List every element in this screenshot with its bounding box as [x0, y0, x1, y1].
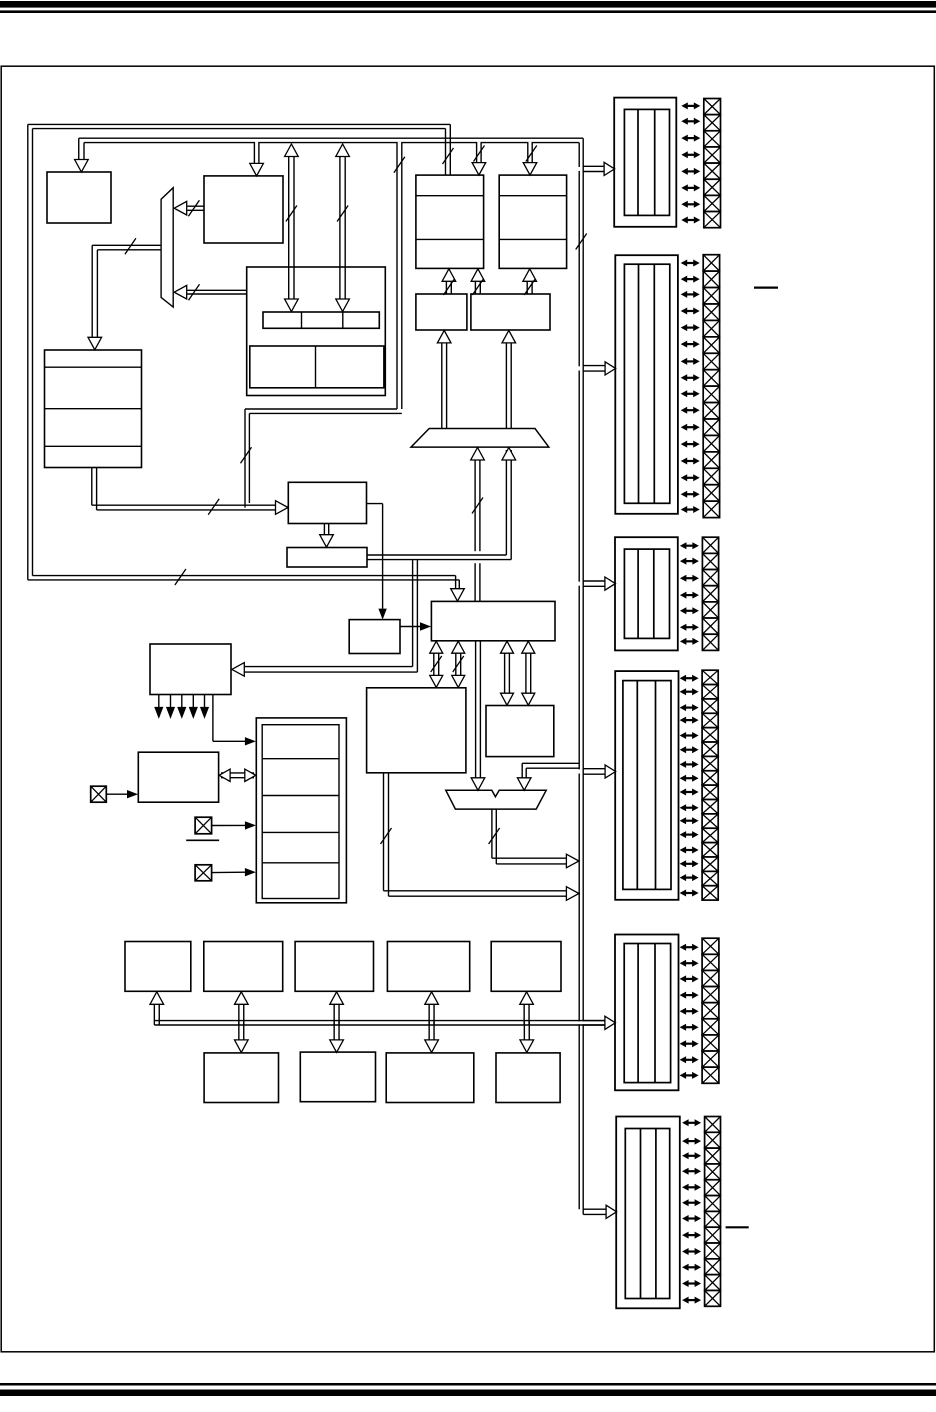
arrowhead: ALU-W up — [501, 641, 514, 653]
wire+arrow: bus to register row right — [336, 144, 350, 312]
tick: mux to stack horizontal — [125, 238, 136, 254]
arrowhead: latch into pointer high — [442, 269, 456, 282]
wire: VDD pin to timing — [212, 871, 246, 873]
port C pin arrows — [684, 545, 695, 547]
arrowhead: bus into instruction register — [250, 163, 264, 176]
arrowhead: status link into data mux — [502, 448, 516, 461]
arrowhead: into decode block — [232, 663, 245, 677]
wire: bus branch to port B — [583, 366, 606, 372]
block: ALU — [431, 601, 555, 640]
arrowhead: into latch low — [502, 330, 516, 343]
wire: latch to pointer high — [446, 281, 451, 294]
arrowhead: ALU-multiplier down 2 — [452, 675, 465, 687]
wire: bus branch to port D — [583, 769, 605, 775]
wire: mux to stack — [92, 245, 161, 337]
tick: latch-counter — [524, 279, 535, 295]
port D pin cells — [702, 670, 718, 684]
port A block — [614, 98, 676, 227]
bus: program memory U path — [28, 124, 460, 589]
arrowhead: into status register — [320, 535, 334, 548]
wire: register file to mux — [187, 290, 247, 294]
arrowhead: bus feed into output mux — [517, 778, 531, 791]
arrowhead: branch into port B — [605, 362, 616, 375]
block: peripheral B2 — [300, 1052, 375, 1102]
solid arrowheads: decode control lines — [158, 695, 160, 708]
wire: bus drop to block PC — [79, 138, 84, 160]
port F pin arrows — [686, 1122, 697, 1124]
wire: latch to pointer mid — [475, 281, 480, 294]
wire: bus branch to port F — [583, 1209, 607, 1214]
dash: port B label remnant — [754, 287, 778, 289]
tick: U bus bottom — [175, 569, 186, 585]
arrowhead: ALU-multiplier up — [430, 641, 443, 653]
block: peripheral B1 — [204, 1053, 278, 1103]
arrowhead: ALU into output mux — [471, 778, 485, 791]
arrowhead: bus stem up A4 — [425, 992, 439, 1005]
block: FSR registers — [288, 482, 366, 523]
arrowhead: into latch high — [437, 330, 451, 343]
port B pin cells — [703, 255, 719, 271]
block: peripheral A3 — [295, 942, 373, 992]
wire: status register link to latch — [367, 450, 512, 560]
pin: VDD VSS — [195, 865, 212, 881]
block: status register — [287, 548, 367, 568]
block: peripheral A4 — [387, 942, 469, 992]
arrowhead: bus into program counter — [75, 160, 89, 173]
port E pin cells — [702, 938, 719, 954]
page bottom rule (thin) — [0, 1383, 936, 1386]
port F pin cells — [705, 1117, 721, 1133]
arrowhead: bus stem down B4 — [520, 1040, 534, 1053]
wire: multiplier result to data bus — [384, 773, 568, 896]
page top rule (thin) — [0, 10, 936, 13]
arrowhead: instruction to mux — [174, 201, 187, 215]
wire: FSR to ROM latch — [367, 504, 383, 609]
wire: link to decode block — [245, 560, 418, 673]
wire: stack to FSR block — [92, 468, 276, 510]
tick: multiplier out — [381, 828, 392, 844]
wire: data bus to output mux — [522, 763, 579, 778]
port D pin arrows — [684, 677, 695, 679]
wire: bus branch to port C — [583, 581, 606, 586]
block: W register — [486, 706, 554, 757]
arrowhead: branch into port D — [605, 765, 616, 778]
arrowhead: bus stem down B1 — [235, 1040, 249, 1053]
wire: latch to counter — [527, 281, 532, 294]
bus junction gaps — [255, 142, 584, 1214]
port F block — [616, 1117, 680, 1309]
arrowhead: ALU-multiplier down — [430, 675, 443, 687]
pin: OSC1 — [91, 786, 107, 802]
port C block — [615, 537, 678, 650]
block: peripheral A2 — [204, 942, 283, 992]
block: address latch high — [416, 294, 467, 330]
wire: ROM latch to ALU — [400, 626, 421, 628]
port E pin arrows — [684, 946, 695, 948]
bus: peripheral bus — [154, 1021, 605, 1025]
block: register file — [247, 267, 386, 396]
solid arrowhead: VDD pin into timing — [245, 868, 256, 876]
port A pin cells — [704, 99, 721, 115]
block: register file data row — [250, 346, 384, 388]
tick: drop to T2 — [526, 146, 537, 162]
arrowhead: branch into port C — [605, 577, 616, 590]
page bottom rule (thick) — [0, 1390, 936, 1397]
port C pin cells — [702, 537, 718, 553]
arrowhead: branch into port A — [604, 162, 615, 175]
port E block — [615, 935, 679, 1091]
arrowhead: multiplier into data bus — [566, 887, 579, 901]
pin underline — [186, 839, 219, 841]
wire: latch high to data mux — [442, 343, 447, 429]
tick: mux2 out — [489, 828, 500, 844]
mux: data mux — [411, 429, 549, 448]
wire: oscillator block to timing — [221, 773, 254, 778]
arrowhead: ALU-W up 2 — [522, 641, 535, 653]
tick: U bus right drop — [443, 148, 454, 164]
port B block — [615, 255, 678, 514]
wire: ALU to multiplier right — [456, 652, 461, 677]
arrowhead: bus into counter block — [523, 163, 537, 176]
wire: ALU to W register right — [526, 652, 531, 694]
tick: bus stem left — [286, 206, 297, 222]
wire: instruction block to mux — [187, 206, 204, 210]
wire: bus drop to instruction block — [254, 143, 259, 164]
dash: port F label remnant — [726, 1226, 749, 1228]
tick: ALU-multiplier a — [431, 656, 442, 672]
wire: decode to timing block — [213, 695, 245, 742]
solid arrowhead: MCLR pin into timing — [245, 821, 256, 829]
tick: ALU-multiplier b — [453, 656, 464, 672]
wire: ALU to W register left — [505, 652, 510, 694]
solid arrowhead: decode into timing — [245, 737, 256, 745]
tick: trunk upper — [576, 234, 587, 250]
arrowhead: bus stem up A1 — [150, 992, 164, 1005]
arrowhead: into FSR block — [276, 501, 289, 515]
arrowhead: bus stem up A5 — [520, 992, 534, 1005]
arrowhead: bus into table pointer — [472, 163, 486, 176]
block: peripheral B4 — [496, 1053, 560, 1103]
wire: output mux to data bus — [492, 809, 567, 864]
wire: ALU to output mux — [476, 641, 481, 778]
block: oscillator — [138, 752, 218, 802]
arrowhead: latch into pointer mid — [471, 269, 485, 282]
bus: main data bus and right trunk — [79, 138, 583, 1214]
wire: bus drop to block T1 — [477, 143, 482, 163]
wire: OSC pin to oscillator block — [106, 793, 128, 795]
arrowhead: bus stem down B2 — [330, 1040, 344, 1053]
arrowhead: ALU-W down — [501, 693, 514, 705]
block: program counter stack latch — [499, 175, 566, 268]
tick: drop to T1 — [474, 146, 485, 162]
block: address latch low — [471, 294, 550, 330]
block: register file bank row — [263, 312, 379, 328]
wire: latch low riser — [506, 343, 511, 429]
arrowhead: U bus into ALU — [451, 589, 465, 602]
tick: register file to mux — [189, 284, 200, 300]
port A pin arrows — [685, 105, 696, 107]
wire+arrow: bus to register row left — [285, 144, 299, 312]
arrowhead: latch into counter — [523, 269, 537, 282]
mux: instruction address mux — [161, 188, 173, 307]
arrowhead: output mux into data bus — [566, 854, 579, 868]
wire: bus drop to block T2 — [528, 143, 532, 163]
wire: bus branch to port A — [583, 166, 605, 171]
block: stack — [45, 350, 142, 468]
wire: MCLR pin to timing — [212, 824, 246, 826]
wire: FSR to status register — [324, 524, 328, 536]
arrowhead: branch into port E — [605, 1016, 616, 1029]
wire: bus branch to port E — [583, 1021, 606, 1025]
tick: stack to FSR horizontal — [208, 499, 219, 515]
arrowhead: bus stem up A3 — [330, 992, 344, 1005]
wire: ALU to data mux — [475, 460, 480, 602]
block: peripheral A1 — [125, 942, 191, 992]
tick: register path — [394, 157, 405, 173]
port B pin arrows — [685, 262, 696, 264]
tick: bus stem right — [337, 206, 348, 222]
wire: ALU to multiplier left — [434, 652, 439, 677]
arrowhead: ALU into data mux — [471, 448, 485, 461]
mux: output mux — [446, 790, 546, 809]
arrowhead: branch into port F — [606, 1205, 617, 1218]
block: multiplier — [367, 688, 466, 773]
pin: MCLR — [195, 817, 212, 834]
arrowhead: mux into stack — [88, 337, 102, 350]
arrowhead: ALU-multiplier up 2 — [452, 641, 465, 653]
arrowhead: oscillator-timing west — [219, 769, 230, 781]
arrowhead: bus stem up A2 — [235, 992, 249, 1005]
arrowhead: oscillator-timing east — [245, 769, 256, 781]
arrowhead: ALU-W down 2 — [522, 693, 535, 705]
bus: register file address path — [245, 143, 402, 508]
block: peripheral B3 — [386, 1053, 474, 1103]
block: timing generation column — [256, 718, 346, 903]
wire: peripheral bus stems — [154, 1004, 529, 1040]
solid arrowhead: into ALU from ROM latch — [420, 622, 431, 630]
block: program counter — [47, 172, 111, 223]
block: peripheral A5 — [491, 942, 561, 992]
solid arrowhead: into ROM latch — [378, 609, 386, 620]
arrowhead: bus stem down B3 — [425, 1040, 439, 1053]
block: table pointer — [416, 175, 484, 268]
arrowhead: register file to mux — [174, 285, 187, 299]
block: instruction register — [204, 176, 283, 243]
block: ROM latch — [349, 620, 400, 654]
tick: latch-pointer b — [472, 279, 483, 295]
tick: mux to stack path — [241, 447, 252, 463]
port D block — [615, 671, 678, 900]
tick: instruction to mux — [188, 200, 199, 216]
solid arrowhead: OSC pin into oscillator — [127, 790, 138, 798]
tick: ALU-mux riser — [472, 498, 483, 514]
page top rule (thick) — [0, 1, 936, 8]
tick: latch-pointer a — [443, 279, 454, 295]
block: instruction decode and control — [150, 644, 231, 695]
